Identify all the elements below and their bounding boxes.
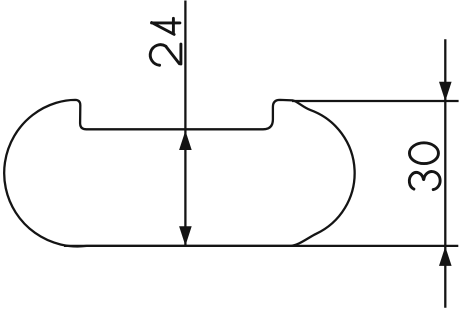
dimension line 30 bbox=[444, 39, 446, 308]
label digit 3 of 30 (rotated) bbox=[409, 172, 440, 190]
arrow 24 top (up) bbox=[179, 131, 192, 150]
top extension line (30 dim) bbox=[292, 100, 459, 102]
label digit 2 of 24 (rotated) bbox=[150, 44, 181, 65]
label digit 4 of 24 (rotated) bbox=[152, 18, 180, 34]
arrow 30 bottom (up) bbox=[439, 247, 452, 266]
arrow 30 top (down) bbox=[439, 82, 452, 101]
handrail profile outline bbox=[4, 100, 354, 247]
arrow 24 bottom (down) bbox=[179, 226, 192, 245]
bottom extension line bbox=[64, 245, 458, 247]
label digit 0 of 30 (rotated) bbox=[409, 143, 438, 164]
dimension line 24 bbox=[184, 1, 186, 246]
